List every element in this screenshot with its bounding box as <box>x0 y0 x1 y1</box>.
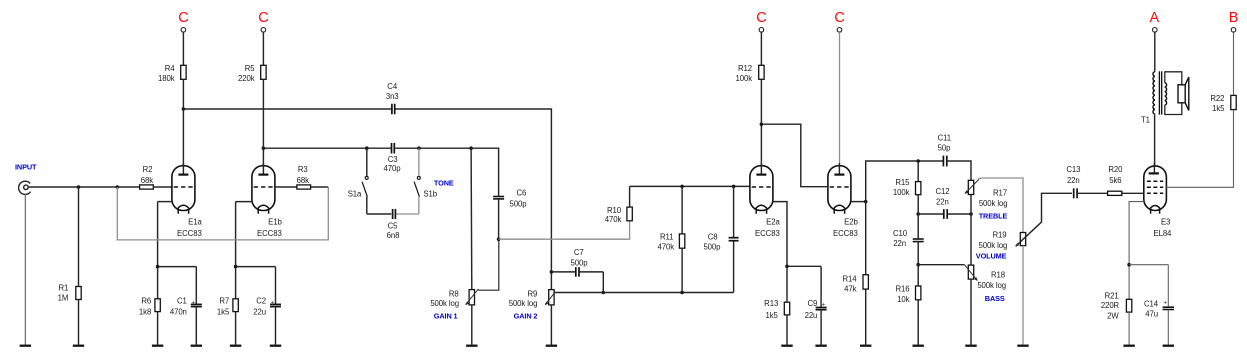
wire R20 to E3 grid <box>1122 192 1144 194</box>
node C supply terminal 3 <box>759 28 764 33</box>
node C7 bottom junction <box>602 291 606 295</box>
wire C to R12 <box>760 32 762 66</box>
node C supply terminal 1 <box>181 28 186 33</box>
node E3 cathode junction <box>1127 263 1131 267</box>
svg-text:R5: R5 <box>245 64 256 73</box>
pentode E3 <box>1144 166 1167 211</box>
ground jack <box>20 345 31 347</box>
wire E1a cathode <box>158 201 173 203</box>
svg-text:500p: 500p <box>571 258 589 267</box>
input jack J1 <box>19 181 31 194</box>
svg-text:C1: C1 <box>177 297 187 306</box>
svg-text:50p: 50p <box>938 143 951 152</box>
svg-text:C: C <box>178 10 188 26</box>
ground R8 <box>466 345 477 347</box>
capacitor C9 <box>816 307 827 309</box>
ground R1 <box>73 345 84 347</box>
ground R16 <box>913 345 924 347</box>
svg-text:C11: C11 <box>938 134 951 143</box>
svg-text:E1b: E1b <box>268 218 282 227</box>
node E1a anode junction <box>182 107 186 111</box>
svg-text:2W: 2W <box>1107 311 1119 320</box>
node C12 right junction <box>969 212 973 216</box>
switch S1b <box>418 148 420 176</box>
capacitor C7 <box>575 267 577 277</box>
capacitor C13 <box>1073 188 1075 198</box>
resistor R21 <box>1126 299 1131 312</box>
capacitor C12 <box>943 209 945 219</box>
node R1 junction <box>77 185 81 189</box>
ground R9 <box>546 345 557 347</box>
node E2b cathode junction <box>864 200 868 204</box>
wire R9 bottom to ground <box>550 305 552 345</box>
wire C11 to R17 <box>947 161 971 180</box>
svg-text:C4: C4 <box>387 82 398 91</box>
svg-text:180k: 180k <box>158 74 175 83</box>
wire R17 to R18 chain <box>970 195 972 266</box>
svg-text:E1a: E1a <box>188 218 202 227</box>
capacitor C1 <box>191 303 202 305</box>
svg-text:R1: R1 <box>59 283 69 292</box>
svg-text:R17: R17 <box>993 188 1007 197</box>
svg-text:68k: 68k <box>141 176 153 185</box>
svg-text:500k log: 500k log <box>509 299 538 308</box>
wire C to R5 <box>262 32 264 66</box>
svg-text:+: + <box>1163 301 1167 307</box>
triode E1b <box>252 166 275 211</box>
svg-text:1k5: 1k5 <box>1212 104 1225 113</box>
capacitor C5 <box>392 209 394 219</box>
svg-text:R12: R12 <box>738 64 752 73</box>
wire R2 to E1a grid <box>153 186 172 188</box>
resistor R1 <box>78 187 80 287</box>
triode E2b <box>828 166 851 211</box>
svg-text:1M: 1M <box>58 294 69 303</box>
wire C4 to R9 top <box>395 109 551 272</box>
wire T1 secondary to speaker <box>1165 72 1182 85</box>
svg-text:GAIN 1: GAIN 1 <box>434 312 458 321</box>
svg-text:C8: C8 <box>708 232 718 241</box>
svg-text:TONE: TONE <box>434 178 454 187</box>
resistor R5 <box>261 65 266 79</box>
svg-text:22n: 22n <box>893 239 906 248</box>
svg-text:R9: R9 <box>528 290 538 299</box>
resistor R12 <box>759 65 764 79</box>
svg-text:R22: R22 <box>1210 94 1224 103</box>
potentiometer R9 <box>550 272 552 290</box>
svg-text:R16: R16 <box>895 285 909 294</box>
node S1b junction <box>417 146 421 150</box>
node R15 bottom junction <box>916 212 920 216</box>
ground R13 <box>781 345 792 347</box>
wire R5 to E1b anode <box>262 79 264 148</box>
svg-text:R6: R6 <box>141 297 151 306</box>
wire cathode up to tone stack <box>866 161 944 202</box>
svg-text:R3: R3 <box>298 165 308 174</box>
svg-text:C5: C5 <box>388 221 399 230</box>
capacitor C10 <box>913 238 924 240</box>
svg-text:ECC83: ECC83 <box>177 229 202 238</box>
svg-text:22n: 22n <box>1067 176 1080 185</box>
wire cathode to C1 <box>158 266 197 268</box>
triode E2a <box>750 166 773 211</box>
svg-text:R11: R11 <box>660 232 673 241</box>
resistor R22 <box>1231 95 1236 109</box>
svg-text:C14: C14 <box>1144 300 1159 309</box>
node E1b cathode junction <box>234 265 238 269</box>
svg-text:GAIN 2: GAIN 2 <box>514 312 538 321</box>
potentiometer R17 TREBLE <box>968 180 973 194</box>
svg-text:47k: 47k <box>844 285 856 294</box>
node E2a anode junction <box>760 122 764 126</box>
wire tone line to C6 <box>471 148 499 196</box>
resistor R4 <box>181 65 186 79</box>
svg-text:R18: R18 <box>991 271 1005 280</box>
node C6 bottom junction <box>497 237 501 241</box>
wire C7 to wiper line <box>602 272 604 293</box>
svg-text:R2: R2 <box>143 165 153 174</box>
svg-text:47u: 47u <box>1145 310 1158 319</box>
wire R8 wiper to C6 node <box>478 239 499 290</box>
wire cathode to C14 <box>1129 264 1168 266</box>
svg-text:500k log: 500k log <box>430 299 459 308</box>
svg-text:TREBLE: TREBLE <box>979 211 1008 220</box>
wire input to R2 <box>28 186 139 188</box>
svg-text:470n: 470n <box>170 307 187 316</box>
speaker LS1 <box>1178 77 1189 110</box>
wire E2a grid line <box>630 185 751 187</box>
svg-text:C7: C7 <box>574 248 584 257</box>
ground R18 <box>965 345 976 347</box>
node C7 left junction <box>550 270 554 274</box>
wire bass wiper line <box>918 264 964 266</box>
node R15 top junction <box>916 159 920 163</box>
svg-text:C: C <box>834 10 844 26</box>
node tone output junction <box>469 146 473 150</box>
wire C12 line <box>918 213 943 215</box>
svg-text:C2: C2 <box>256 297 266 306</box>
wire jack to ground <box>24 194 26 345</box>
grey wire R17 wiper to R19 <box>978 178 1023 233</box>
svg-text:+: + <box>191 300 195 306</box>
node A supply terminal <box>1153 28 1158 33</box>
wire R4 to anode node <box>182 79 184 109</box>
switch S1a <box>366 148 368 176</box>
wire R8 bottom to ground <box>471 305 473 345</box>
svg-text:500p: 500p <box>703 242 721 251</box>
resistor R6 <box>155 299 160 312</box>
wire E3 cathode <box>1129 202 1144 300</box>
node E1b anode junction <box>262 146 266 150</box>
wire C5 line <box>367 213 392 215</box>
node C supply terminal 4 <box>837 28 842 33</box>
svg-text:470k: 470k <box>657 242 674 251</box>
svg-text:10k: 10k <box>897 295 909 304</box>
svg-text:E2a: E2a <box>766 218 780 227</box>
resistor R16 <box>917 265 919 286</box>
svg-text:R14: R14 <box>842 274 857 283</box>
svg-text:22u: 22u <box>253 307 266 316</box>
svg-text:R4: R4 <box>165 64 176 73</box>
svg-text:T1: T1 <box>1141 115 1150 124</box>
svg-text:470k: 470k <box>605 215 622 224</box>
svg-text:1k5: 1k5 <box>217 307 230 316</box>
wire E1b cathode <box>236 201 253 203</box>
svg-text:ECC83: ECC83 <box>257 229 282 238</box>
wire E2a cathode <box>773 202 787 303</box>
node S1a junction <box>365 146 369 150</box>
ground C1 <box>191 345 202 347</box>
svg-text:220k: 220k <box>238 74 255 83</box>
node C supply terminal 2 <box>261 28 266 33</box>
potentiometer R19 VOLUME <box>1020 233 1025 246</box>
svg-text:R13: R13 <box>764 299 778 308</box>
potentiometer R18 BASS <box>968 265 973 279</box>
svg-text:A: A <box>1150 10 1160 26</box>
resistor R15 <box>917 161 919 182</box>
capacitor C4 <box>391 104 393 115</box>
svg-text:C: C <box>756 10 766 26</box>
resistor R14 <box>865 202 867 275</box>
svg-text:1k8: 1k8 <box>139 307 151 316</box>
svg-text:EL84: EL84 <box>1153 229 1172 238</box>
svg-text:C12: C12 <box>935 187 949 196</box>
svg-text:INPUT: INPUT <box>15 162 37 171</box>
wire A to T1 primary <box>1154 32 1156 72</box>
capacitor C11 <box>942 156 944 167</box>
svg-text:R15: R15 <box>895 178 910 187</box>
svg-text:C10: C10 <box>893 229 908 238</box>
svg-text:100k: 100k <box>735 74 752 83</box>
svg-text:500k log: 500k log <box>979 241 1008 250</box>
wire direct coupling E2a anode to E2b grid <box>761 124 827 187</box>
wire C7 line <box>551 271 575 273</box>
node R11 bottom junction <box>680 291 684 295</box>
svg-text:C13: C13 <box>1066 165 1080 174</box>
svg-text:BASS: BASS <box>985 294 1005 303</box>
wire E1b grid to R3 <box>275 186 297 188</box>
svg-text:+: + <box>271 300 275 306</box>
resistor R11 <box>681 186 683 234</box>
wire E1a anode <box>182 109 184 166</box>
grey wire R19 to ground <box>1022 246 1024 345</box>
node E1a cathode junction <box>156 265 160 269</box>
svg-text:S1a: S1a <box>348 189 362 198</box>
ground C9 <box>815 345 826 347</box>
wire cathode to C9 <box>787 265 821 267</box>
ground R7 <box>230 345 241 347</box>
wire cathode to C2 <box>236 266 276 268</box>
svg-text:220R: 220R <box>1101 301 1120 310</box>
resistor R3 <box>297 185 311 189</box>
capacitor C14 <box>1163 306 1174 308</box>
svg-text:C3: C3 <box>388 155 398 164</box>
svg-text:6n8: 6n8 <box>387 231 400 240</box>
wire C to R4 <box>182 32 184 66</box>
wire E2b cathode <box>851 201 866 203</box>
ground C14 <box>1163 345 1174 347</box>
node B supply terminal <box>1231 28 1236 33</box>
svg-text:+: + <box>822 302 826 308</box>
potentiometer R8 <box>470 148 473 289</box>
svg-text:R7: R7 <box>219 297 229 306</box>
svg-text:S1b: S1b <box>423 189 437 198</box>
svg-text:68k: 68k <box>297 176 309 185</box>
svg-text:5k6: 5k6 <box>1109 176 1121 185</box>
svg-text:E2b: E2b <box>844 218 858 227</box>
wire C10 to R16 node <box>917 242 919 265</box>
wire C6 to wiper node <box>498 199 500 239</box>
svg-text:C6: C6 <box>517 188 527 197</box>
wire R12 to E2a anode <box>760 79 762 166</box>
node R16 top junction <box>916 263 920 267</box>
resistor R13 <box>784 302 789 315</box>
resistor R10 <box>629 207 631 221</box>
capacitor C2 <box>270 303 281 305</box>
capacitor C8 <box>733 186 735 237</box>
wire T1 primary to E3 anode <box>1154 114 1156 167</box>
svg-text:1k5: 1k5 <box>766 311 779 320</box>
wire C13 to R20 <box>1077 192 1108 194</box>
wire R22 to E3 screen grid <box>1166 110 1233 188</box>
wire tone line <box>263 147 391 149</box>
wire R15 to C10 <box>917 214 919 239</box>
resistor R2 <box>140 185 154 189</box>
wire R9 wiper line <box>555 292 734 294</box>
svg-text:R20: R20 <box>1108 165 1123 174</box>
svg-text:500k log: 500k log <box>979 199 1008 208</box>
svg-text:R8: R8 <box>449 290 459 299</box>
ground R19 <box>1017 345 1028 347</box>
ground C2 <box>270 345 281 347</box>
svg-text:ECC83: ECC83 <box>755 229 780 238</box>
capacitor C3 <box>391 143 393 154</box>
svg-text:500p: 500p <box>510 200 528 209</box>
wire R18 to ground <box>970 279 972 345</box>
ground R14 <box>860 345 871 347</box>
svg-text:22u: 22u <box>805 311 818 320</box>
svg-text:ECC83: ECC83 <box>833 229 858 238</box>
svg-text:22n: 22n <box>936 197 949 206</box>
wire grey feedback R3 to input node <box>311 186 329 188</box>
wire C3 to C6 corner <box>394 147 471 149</box>
wire anode line to C4 <box>183 108 391 110</box>
grey wire C to E2b anode <box>839 32 841 166</box>
svg-text:470p: 470p <box>384 164 402 173</box>
ground R6 <box>152 345 163 347</box>
svg-text:100k: 100k <box>893 188 910 197</box>
svg-text:VOLUME: VOLUME <box>976 251 1007 260</box>
triode E1a <box>172 166 195 211</box>
svg-text:E3: E3 <box>1161 218 1170 227</box>
node grey feedback junction <box>116 185 120 189</box>
wire E1b anode <box>262 148 264 166</box>
node E2a cathode junction <box>785 265 789 269</box>
transformer T1 <box>1153 71 1167 114</box>
node C8 top junction <box>732 185 736 189</box>
svg-text:500k log: 500k log <box>977 281 1006 290</box>
wire C8 bottom riser <box>733 241 735 293</box>
node R11 top junction <box>680 185 684 189</box>
svg-text:C9: C9 <box>808 299 818 308</box>
wire B to R22 <box>1233 32 1235 95</box>
resistor R20 <box>1108 191 1122 195</box>
svg-text:B: B <box>1229 10 1239 26</box>
svg-text:3n3: 3n3 <box>386 92 399 101</box>
svg-text:C: C <box>258 10 268 26</box>
grey wire wiper node to R10 <box>499 221 630 239</box>
wire R19 wiper to C13 <box>1016 193 1072 246</box>
capacitor C6 <box>493 196 504 198</box>
svg-text:R19: R19 <box>992 231 1006 240</box>
resistor R7 <box>233 299 238 312</box>
ground R21 <box>1123 345 1134 347</box>
svg-text:R21: R21 <box>1105 292 1119 301</box>
svg-text:R10: R10 <box>607 206 622 215</box>
